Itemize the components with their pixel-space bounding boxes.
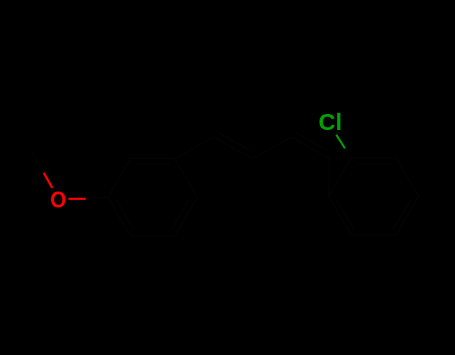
bond O-ringA carbon half	[83, 197, 108, 200]
ring A double bond inner line right	[171, 199, 189, 230]
ring B double bond inner line lower-left	[336, 199, 354, 230]
bond CH3-O oxygen half (red)	[44, 173, 53, 188]
benzene ring A (4-methoxyphenyl)	[108, 159, 197, 236]
ring B double bond inner line top	[357, 163, 391, 165]
ring A double bond inner line top	[136, 163, 170, 165]
ring B double bond inner line right	[393, 199, 411, 230]
chain double bond C3=C4 inner line	[296, 133, 328, 151]
bond CH3-O carbon half	[31, 151, 46, 177]
svg-text:Cl: Cl	[319, 109, 343, 135]
bond C-Cl chlorine half (green)	[336, 135, 345, 149]
svg-text:O: O	[50, 187, 66, 213]
ring A double bond inner line lower-left	[116, 199, 134, 230]
benzene ring B (2-chlorophenyl)	[329, 158, 419, 235]
chain double bond C1=C2 inner line	[218, 133, 250, 151]
bond C-Cl carbon half	[345, 148, 351, 157]
bond O-ringA oxygen half (red)	[69, 198, 86, 200]
butadienyl chain	[175, 137, 330, 196]
